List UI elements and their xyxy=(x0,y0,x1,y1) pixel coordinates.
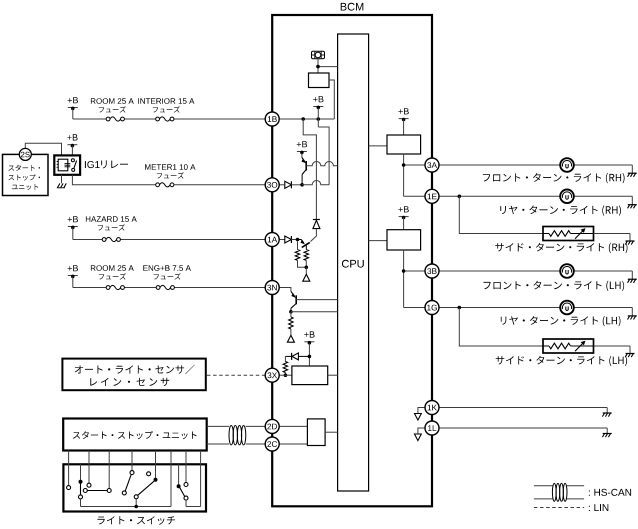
wire 3N low to CPU xyxy=(291,311,338,313)
wire 3O hop to pullup xyxy=(302,181,329,185)
node 2C xyxy=(265,437,279,451)
wire to R2c xyxy=(290,312,292,317)
resistor R3 xyxy=(283,362,287,373)
wire 3A to front turn RH xyxy=(439,164,561,166)
wire +B through 1B xyxy=(317,108,319,127)
wire LIN dashed to 3X xyxy=(207,374,265,376)
node 1B xyxy=(265,112,279,126)
junction 3O xyxy=(300,183,304,187)
side turn LH arrow xyxy=(575,341,586,352)
side turn LH box xyxy=(543,339,594,353)
start-stop unit box xyxy=(63,419,207,451)
fuse F5 ROOM 25A xyxy=(106,285,124,289)
power +B internal top xyxy=(313,96,323,109)
wire side LH branch xyxy=(459,308,543,347)
power +B relay xyxy=(67,134,77,155)
node 3N xyxy=(265,281,279,295)
arrow 1K xyxy=(415,414,422,421)
relay box R2 xyxy=(309,73,330,88)
label rear turn LH xyxy=(501,316,621,326)
side turn RH box xyxy=(543,227,594,241)
wire pullup rail xyxy=(318,127,329,185)
wire 1B internal rail xyxy=(279,118,334,120)
ground side LH xyxy=(625,354,634,358)
wire 1L stub xyxy=(418,428,425,434)
wire fuse to 3O xyxy=(174,184,265,186)
legend HS-CAN text xyxy=(589,489,631,496)
diode D3 xyxy=(285,236,292,243)
label side turn LH xyxy=(496,356,627,366)
fuse F1 ROOM 25A xyxy=(106,117,124,121)
node 3O xyxy=(265,178,279,192)
fuse HAZARD jp xyxy=(98,224,125,230)
wire S1 to CPU xyxy=(317,59,319,73)
relay IG1 box xyxy=(54,155,80,174)
light switch box xyxy=(63,464,206,511)
junction 1E xyxy=(458,195,462,199)
BCM module box xyxy=(272,15,432,506)
ground front LH xyxy=(628,279,637,283)
BCM label xyxy=(341,3,364,11)
wire 1E row xyxy=(439,195,561,197)
junction S1 xyxy=(316,65,320,69)
node 3B xyxy=(425,264,439,278)
wire 2S to relay xyxy=(25,143,61,155)
transistor T2 xyxy=(298,240,310,250)
wire B3 to CPU xyxy=(328,374,338,376)
label front turn RH xyxy=(483,173,625,183)
fuse ENG+B label xyxy=(143,265,191,271)
resistor R2c xyxy=(289,317,293,329)
power +B T1 xyxy=(297,141,307,154)
junction 3N low xyxy=(289,310,293,314)
wire CPU to driver LH xyxy=(369,240,387,242)
start-stop unit small box xyxy=(3,154,49,195)
power +B feed row 1B xyxy=(68,97,78,119)
power +B driver RH xyxy=(398,108,408,135)
start-stop unit text xyxy=(9,165,41,171)
node 1A xyxy=(265,233,279,247)
wire to ground arrow xyxy=(305,267,307,274)
fuse ROOM 25 A jp xyxy=(99,106,126,112)
wire D2 to T2 xyxy=(311,229,317,242)
fuse METER1 jp xyxy=(157,172,184,178)
diode D4 xyxy=(285,353,309,360)
diode D1 xyxy=(285,181,292,188)
wire B4 to CPU xyxy=(325,431,338,433)
wire 1A to diode xyxy=(279,239,285,241)
wire 3B to front turn LH xyxy=(439,270,561,272)
CPU box xyxy=(338,34,369,491)
wire 3N into T3 xyxy=(279,288,291,292)
side turn RH resistor xyxy=(543,231,594,237)
label front turn LH xyxy=(483,281,624,291)
label rear turn RH xyxy=(500,205,621,215)
wire 1K stub xyxy=(418,408,425,414)
driver box LH xyxy=(387,230,421,250)
fuse ENG+B jp xyxy=(154,273,181,279)
ground side RH xyxy=(625,241,634,245)
wire row 3N xyxy=(73,287,265,289)
connector 2S xyxy=(19,148,31,160)
ground front RH xyxy=(628,173,637,177)
wire branch rail to diode xyxy=(303,119,316,220)
wire relay coil to ground xyxy=(61,175,63,183)
wire driver LH out xyxy=(403,250,405,308)
resistor R2b xyxy=(304,250,308,261)
CPU label xyxy=(342,260,364,268)
power +B feed row 3N xyxy=(68,265,78,287)
arrow 1L xyxy=(415,434,422,441)
fuse INTERIOR jp xyxy=(153,106,180,112)
relay IG1 label xyxy=(85,160,128,168)
node 1G xyxy=(425,301,439,315)
wire 1G row xyxy=(439,307,561,309)
legend LIN symbol xyxy=(534,507,584,509)
junction 1G xyxy=(458,306,462,310)
transistor T1 xyxy=(302,158,307,185)
junction driver LH xyxy=(402,269,406,273)
light switch wires xyxy=(69,451,201,507)
ground arrow 3N xyxy=(287,335,294,342)
wire D4 leg xyxy=(284,356,286,361)
wire 2C to box B4 xyxy=(279,443,307,445)
fuse ROOM 25 A label xyxy=(91,98,134,104)
fuse ROOM jp 2 xyxy=(99,273,126,279)
junction 1A xyxy=(296,238,300,242)
fuse METER1 label xyxy=(145,164,195,170)
wire 2D to box B4 xyxy=(279,425,307,427)
wire 3O to diode xyxy=(279,184,285,186)
wire 1A junction to R1 xyxy=(297,241,299,249)
junction 1B-a xyxy=(301,117,305,121)
diode D2 xyxy=(313,220,320,229)
fuse F4 HAZARD 15A xyxy=(102,237,120,241)
sensor box text xyxy=(75,365,195,374)
junction 1B-b xyxy=(317,117,321,121)
fuse F6 ENG+B 7.5A xyxy=(156,285,174,289)
side turn LH resistor xyxy=(543,343,594,349)
wire row 1A xyxy=(73,239,265,241)
lamp front turn LH xyxy=(560,264,574,278)
relay coil xyxy=(57,159,71,171)
ground 1K xyxy=(602,413,611,417)
fuse F3 METER1 10A xyxy=(156,183,174,187)
lamp rear turn RH xyxy=(560,190,574,204)
wire T1 base to CPU with hops xyxy=(306,162,337,166)
relay switch contacts xyxy=(71,159,76,172)
wire CPU to driver RH xyxy=(369,145,387,147)
wire T3 base to CPU xyxy=(296,299,337,301)
wire R3 to 3X line xyxy=(284,373,286,376)
wire 3X to box B3 xyxy=(279,374,292,376)
lamp rear turn LH xyxy=(560,301,574,315)
wire +B to T1 xyxy=(301,153,303,157)
wire row 1B xyxy=(73,118,265,120)
legend LIN text xyxy=(589,504,608,511)
resistor R1 xyxy=(295,250,299,261)
wire resistors join xyxy=(298,260,307,267)
junction +B 3X xyxy=(308,355,312,359)
wire R2 to 1B rail xyxy=(329,80,334,119)
power +B feed row 1A xyxy=(68,216,78,239)
fuse ROOM 25 A label 2 xyxy=(91,265,134,271)
auto light / rain sensor box xyxy=(62,359,205,391)
legend HS-CAN symbol xyxy=(534,483,584,501)
ground rear RH xyxy=(628,205,637,209)
wire side RH out xyxy=(594,233,631,235)
ground relay xyxy=(57,183,66,187)
power +B driver LH xyxy=(398,206,408,230)
node 3X xyxy=(265,368,279,382)
node 1E xyxy=(425,189,439,203)
wire side LH out xyxy=(594,345,631,347)
side turn RH arrow xyxy=(575,228,586,239)
node 1L xyxy=(425,421,439,435)
start-stop unit text xyxy=(73,431,197,439)
junction R join xyxy=(305,266,309,270)
label side turn RH xyxy=(495,243,627,253)
wire HS-CAN twisted pair xyxy=(207,426,266,445)
node 1K xyxy=(425,401,439,415)
fuse HAZARD label xyxy=(86,216,137,222)
wire relay out xyxy=(72,175,155,185)
fuse F2 INTERIOR 15A xyxy=(156,117,174,121)
wire 1K row xyxy=(439,407,607,409)
wire D1 to junction xyxy=(291,184,302,186)
wire side RH branch xyxy=(459,196,543,233)
node 3A xyxy=(425,158,439,172)
transceiver box B4 xyxy=(307,419,325,446)
driver box RH xyxy=(387,135,421,154)
ground 1L xyxy=(602,434,611,438)
light switch contacts and levers xyxy=(67,464,201,508)
wire R2c to ground arrow xyxy=(290,329,292,335)
junction driver RH xyxy=(402,163,406,167)
indicator S1 xyxy=(312,51,325,58)
node 2D xyxy=(265,419,279,433)
junction 3X xyxy=(284,373,288,377)
wire 1L row xyxy=(439,427,607,429)
ground arrow 1A xyxy=(303,274,310,281)
interface box B3 xyxy=(292,366,328,385)
power +B 3X xyxy=(304,331,314,344)
wire +B to box B3 xyxy=(308,344,310,367)
ground rear LH xyxy=(628,316,637,320)
light switch label xyxy=(97,516,175,525)
fuse INTERIOR 15 A label xyxy=(138,98,194,104)
transistor T3 xyxy=(291,291,296,312)
wire driver RH out xyxy=(403,154,405,196)
wire D3 to junction xyxy=(291,239,297,241)
lamp front turn RH xyxy=(560,158,574,172)
